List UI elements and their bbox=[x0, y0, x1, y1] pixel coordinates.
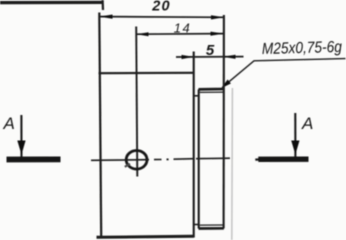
body right edge + extension line of dim 5 bbox=[193, 52, 195, 238]
leader line of thread callout bbox=[223, 59, 346, 88]
svg-text:5: 5 bbox=[206, 42, 215, 59]
section cutting bar right bbox=[258, 156, 308, 162]
section arrow shaft right bbox=[294, 113, 296, 157]
pencil smudge near circle bbox=[125, 164, 130, 167]
section arrowhead left bbox=[17, 141, 25, 155]
body bottom edge bbox=[97, 236, 194, 237]
body left edge + extension line of dim 20 bbox=[99, 13, 101, 238]
svg-text:M25x0,75-6g: M25x0,75-6g bbox=[262, 39, 343, 58]
arrowhead right of dim 14 bbox=[211, 32, 224, 36]
hole vertical centerline + extension of dim 14 bbox=[136, 27, 137, 177]
wire: dimension line 14 bbox=[137, 33, 223, 36]
neck top line bbox=[194, 95, 199, 97]
hole circle bbox=[126, 151, 147, 170]
corner vertical of view above bbox=[101, 0, 104, 10]
boss right edge + extension line of dims bbox=[223, 15, 225, 228]
wire: dimension line 5 bbox=[176, 56, 244, 58]
body top edge bbox=[99, 72, 194, 75]
arrowhead left of dim 14 bbox=[137, 32, 149, 36]
boss bottom edge (major diameter) bbox=[199, 227, 224, 230]
section cutting bar left bbox=[7, 156, 61, 162]
section arrow shaft left bbox=[20, 115, 22, 157]
arrowhead of thread leader bbox=[221, 80, 231, 89]
arrowhead right (outside) of dim 5 bbox=[223, 55, 236, 59]
scan artifact faint line right of boss bbox=[231, 88, 234, 240]
boss top edge (major diameter) bbox=[199, 88, 224, 91]
section arrowhead right bbox=[291, 141, 299, 155]
svg-text:A: A bbox=[301, 114, 313, 133]
wire: dimension line 20 bbox=[100, 16, 224, 19]
svg-text:20: 20 bbox=[151, 0, 171, 15]
svg-text:14: 14 bbox=[174, 21, 191, 36]
thread minor line top bbox=[200, 91, 224, 93]
thread minor line bottom bbox=[200, 224, 224, 226]
arrowhead right of dim 20 bbox=[211, 15, 224, 19]
neck bottom line bbox=[194, 224, 199, 226]
arrowhead left (outside) of dim 5 bbox=[182, 55, 194, 59]
boss left edge (thread runout) bbox=[198, 89, 200, 228]
horizontal centerline (dash-dot axis) bbox=[91, 159, 149, 162]
border line of sheet/view above (top-left) bbox=[0, 1, 102, 4]
arrowhead left of dim 20 bbox=[99, 15, 112, 19]
svg-text:A: A bbox=[3, 114, 15, 133]
